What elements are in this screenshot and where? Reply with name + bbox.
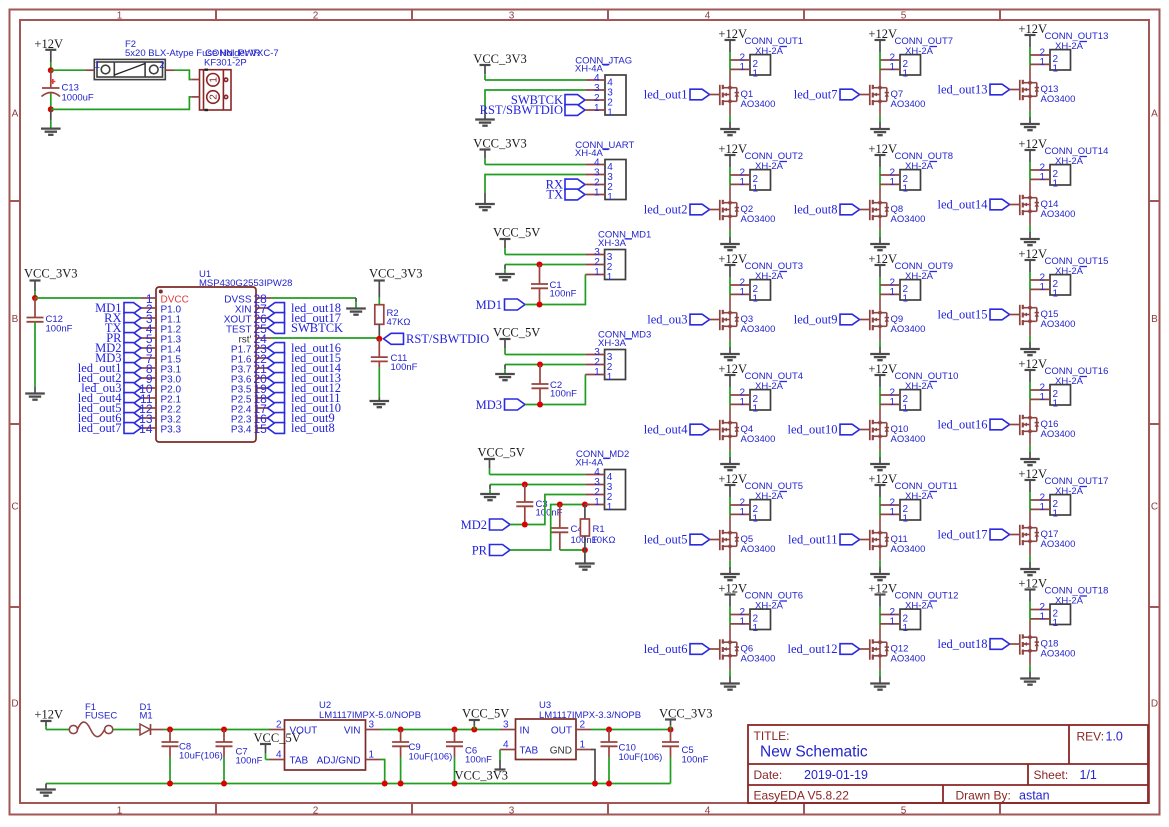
junction — [471, 727, 477, 733]
wire — [35, 297, 141, 299]
ground — [729, 347, 731, 354]
wire — [729, 615, 731, 627]
wire — [1029, 226, 1031, 232]
svg-text:47KΩ: 47KΩ — [387, 317, 411, 328]
svg-text:1/1: 1/1 — [1080, 768, 1097, 782]
net flag led_out18 — [990, 639, 1010, 650]
wire — [879, 60, 881, 72]
net flag led_out11 — [840, 534, 860, 545]
capacitor C6 100nF — [454, 730, 456, 743]
transistor Q5 AO3400 — [720, 517, 739, 561]
capacitor C2 100nF — [539, 365, 541, 385]
wire — [505, 254, 585, 256]
wire — [1029, 500, 1031, 512]
svg-text:3: 3 — [503, 720, 509, 731]
resistor R1 10K — [584, 505, 586, 520]
wire — [729, 341, 731, 347]
junction — [522, 522, 528, 528]
svg-text:D: D — [11, 699, 18, 710]
wire — [51, 97, 191, 110]
svg-text:100nF: 100nF — [550, 288, 577, 299]
U1 pin 11 P2.1 — [141, 397, 156, 399]
svg-text:1: 1 — [1053, 508, 1059, 519]
transistor Q14 AO3400 — [1020, 182, 1039, 226]
svg-text:1: 1 — [889, 62, 895, 73]
svg-text:100nF: 100nF — [236, 756, 263, 767]
svg-text:+12V: +12V — [1018, 137, 1047, 151]
ground — [504, 365, 506, 370]
svg-text:+12V: +12V — [718, 362, 747, 376]
svg-text:MD2: MD2 — [461, 518, 487, 532]
svg-text:1: 1 — [753, 623, 759, 634]
svg-text:MD3: MD3 — [476, 398, 502, 412]
net flag led_out2 — [690, 204, 710, 215]
net flag led_out14 — [268, 363, 285, 374]
svg-text:3: 3 — [509, 10, 515, 21]
svg-text:+12V: +12V — [1018, 467, 1047, 481]
svg-text:15: 15 — [254, 422, 268, 436]
wire — [505, 354, 585, 356]
ground — [729, 567, 731, 574]
wire — [271, 337, 379, 339]
wire — [510, 505, 590, 551]
svg-text:astan: astan — [1019, 789, 1050, 803]
net flag led_out2 — [124, 373, 141, 384]
svg-text:1: 1 — [889, 397, 895, 408]
svg-text:+12V: +12V — [1018, 576, 1047, 590]
wire — [525, 275, 585, 305]
ground — [1029, 672, 1031, 679]
wire — [46, 783, 671, 785]
svg-text:1: 1 — [1053, 178, 1059, 189]
U1 pin 14 P3.3 — [141, 427, 156, 429]
svg-text:1: 1 — [903, 513, 909, 524]
svg-text:MD1: MD1 — [476, 298, 502, 312]
svg-text:1: 1 — [607, 108, 613, 119]
wire — [485, 175, 585, 194]
svg-text:R1: R1 — [593, 524, 605, 535]
svg-text:AO3400: AO3400 — [891, 544, 926, 555]
transistor Q12 AO3400 — [870, 626, 889, 670]
svg-text:1: 1 — [117, 10, 123, 21]
net flag TX — [124, 323, 141, 334]
wire — [729, 505, 731, 517]
svg-text:led_out17: led_out17 — [938, 528, 988, 542]
svg-text:D: D — [1151, 699, 1158, 710]
svg-text:1: 1 — [594, 497, 600, 508]
svg-text:GND: GND — [550, 746, 572, 757]
net flag MD1 — [124, 303, 141, 314]
svg-text:14: 14 — [139, 422, 153, 436]
svg-text:4: 4 — [276, 750, 282, 761]
ground — [879, 347, 881, 354]
wire — [1029, 446, 1031, 452]
junction — [537, 402, 543, 408]
transistor Q10 AO3400 — [870, 407, 889, 451]
capacitor C7 100nF — [223, 730, 225, 743]
svg-text:AO3400: AO3400 — [741, 654, 776, 665]
svg-text:2: 2 — [313, 10, 319, 21]
U2 pin 4 TAB — [270, 759, 285, 761]
U3 pin 3 IN — [500, 729, 516, 731]
junction — [32, 295, 38, 301]
wire — [879, 561, 881, 567]
svg-text:1: 1 — [1039, 611, 1045, 622]
net flag led_out4 — [690, 424, 710, 435]
net flag SWBTCK — [268, 323, 285, 334]
wire — [879, 505, 881, 517]
junction — [537, 362, 543, 368]
svg-text:AO3400: AO3400 — [891, 654, 926, 665]
net flag MD1 — [505, 299, 526, 310]
svg-text:1: 1 — [889, 177, 895, 188]
svg-text:1: 1 — [903, 183, 909, 194]
junction — [582, 547, 588, 553]
svg-text:A: A — [12, 109, 19, 120]
svg-text:1: 1 — [1039, 172, 1045, 183]
wire — [266, 759, 270, 761]
svg-text:led_out14: led_out14 — [938, 198, 989, 212]
svg-text:led_out16: led_out16 — [938, 418, 988, 432]
wire — [1029, 610, 1031, 622]
svg-text:VCC_3V3: VCC_3V3 — [455, 769, 508, 783]
svg-text:AO3400: AO3400 — [741, 434, 776, 445]
svg-text:1: 1 — [1039, 57, 1045, 68]
svg-text:AO3400: AO3400 — [891, 324, 926, 335]
svg-text:1: 1 — [753, 293, 759, 304]
net flag PR — [490, 545, 511, 556]
svg-text:VCC_3V3: VCC_3V3 — [24, 267, 77, 281]
wire — [729, 561, 731, 567]
wire — [163, 729, 270, 731]
svg-text:100nF: 100nF — [550, 388, 577, 399]
U1 pin 13 P3.2 — [141, 417, 156, 419]
junction — [167, 727, 173, 733]
svg-text:VCC_5V: VCC_5V — [493, 326, 540, 340]
U3 pin 4 TAB — [500, 749, 516, 751]
ground — [879, 457, 881, 464]
svg-text:1: 1 — [889, 616, 895, 627]
svg-text:led_out10: led_out10 — [788, 423, 838, 437]
net flag led_ou3 — [690, 314, 710, 325]
junction — [582, 502, 588, 508]
wire — [879, 615, 881, 627]
junction — [537, 302, 543, 308]
svg-text:M1: M1 — [140, 711, 153, 722]
U3 pin 2 OUT — [576, 729, 591, 731]
transistor Q15 AO3400 — [1020, 292, 1039, 336]
wire — [1029, 336, 1031, 342]
svg-text:AO3400: AO3400 — [1041, 94, 1076, 105]
svg-text:1: 1 — [889, 507, 895, 518]
svg-text:1: 1 — [594, 267, 600, 278]
svg-text:2: 2 — [209, 94, 220, 100]
net flag MD3 — [124, 353, 141, 364]
U1 pin 18 P2.5 — [256, 397, 271, 399]
capacitor C12 100nF — [34, 298, 36, 318]
ground — [729, 237, 731, 244]
svg-text:2: 2 — [313, 805, 319, 816]
svg-text:+12V: +12V — [718, 472, 747, 486]
svg-text:RST/SBWTDIO: RST/SBWTDIO — [406, 332, 489, 346]
svg-text:1: 1 — [607, 372, 613, 383]
svg-text:AO3400: AO3400 — [891, 99, 926, 110]
svg-text:10uF(106): 10uF(106) — [409, 752, 453, 763]
ground — [484, 109, 486, 120]
U1 pin 16 P2.3 — [256, 417, 271, 419]
wire — [879, 670, 881, 676]
wire — [271, 297, 356, 299]
wire — [1029, 665, 1031, 671]
net flag led_out8 — [268, 423, 285, 434]
wire — [505, 364, 585, 366]
svg-text:1: 1 — [209, 77, 220, 83]
net flag led_out13 — [268, 373, 285, 384]
ground — [1029, 342, 1031, 349]
svg-text:led_out18: led_out18 — [938, 637, 988, 651]
svg-text:10uF(106): 10uF(106) — [619, 752, 663, 763]
wire — [729, 116, 731, 122]
svg-text:FUSEC: FUSEC — [85, 711, 117, 722]
net flag RST/SBWTDIO — [384, 333, 404, 344]
U2 pin 3 VIN — [366, 729, 381, 731]
U2 pin 1 ADJ/GND — [366, 759, 381, 761]
svg-text:led_out6: led_out6 — [644, 642, 688, 656]
svg-text:1: 1 — [1053, 618, 1059, 629]
wire — [381, 729, 501, 731]
svg-text:1: 1 — [1053, 398, 1059, 409]
junction — [48, 106, 54, 112]
ground — [879, 237, 881, 244]
svg-text:AO3400: AO3400 — [891, 434, 926, 445]
svg-text:AO3400: AO3400 — [741, 544, 776, 555]
net flag led_out5 — [690, 534, 710, 545]
U1 pin 26 XOUT — [256, 317, 271, 319]
net flag led_out6 — [124, 413, 141, 424]
svg-text:+12V: +12V — [718, 27, 747, 41]
svg-text:AO3400: AO3400 — [741, 324, 776, 335]
svg-text:VCC_5V: VCC_5V — [478, 446, 525, 460]
svg-text:led_out15: led_out15 — [938, 308, 988, 322]
wire — [174, 70, 191, 79]
svg-text:1.0: 1.0 — [1106, 730, 1123, 744]
svg-text:led_out4: led_out4 — [644, 423, 688, 437]
svg-text:TX: TX — [546, 188, 563, 202]
svg-text:led_out11: led_out11 — [788, 533, 838, 547]
net flag led_out9 — [840, 314, 860, 325]
net flag MD2 — [490, 519, 511, 530]
svg-text:P3.3: P3.3 — [161, 425, 182, 436]
svg-text:1: 1 — [903, 403, 909, 414]
ground — [879, 567, 881, 574]
svg-text:+12V: +12V — [1018, 22, 1047, 36]
net flag led_out17 — [990, 529, 1010, 540]
net flag led_out15 — [990, 309, 1010, 320]
svg-text:AO3400: AO3400 — [891, 214, 926, 225]
svg-text:VCC_5V: VCC_5V — [493, 226, 540, 240]
svg-text:Sheet:: Sheet: — [1034, 768, 1069, 782]
junction — [522, 482, 528, 488]
svg-text:TAB: TAB — [520, 746, 539, 757]
net flag PR — [124, 333, 141, 344]
transistor Q3 AO3400 — [720, 297, 739, 341]
ground — [378, 398, 380, 402]
U1 pin 15 P3.4 — [256, 427, 271, 429]
svg-text:AO3400: AO3400 — [1041, 539, 1076, 550]
junction — [221, 727, 227, 733]
ground — [729, 677, 731, 684]
svg-text:KF301-2P: KF301-2P — [204, 58, 247, 69]
wire — [729, 231, 731, 237]
svg-text:AO3400: AO3400 — [741, 99, 776, 110]
junction — [668, 727, 674, 733]
junction — [606, 781, 612, 787]
wire — [879, 175, 881, 187]
net flag RX — [565, 179, 585, 190]
U1 pin 19 P3.5 — [256, 387, 271, 389]
fuse F2 5x20 BLX-Atype Fuse Holder — [94, 59, 165, 79]
wire — [729, 670, 731, 676]
U3 pin 1 GND — [576, 749, 591, 751]
svg-text:4: 4 — [705, 805, 711, 816]
net flag SWBTCK — [565, 95, 585, 106]
net flag led_out16 — [268, 343, 285, 354]
transistor Q7 AO3400 — [870, 72, 889, 116]
svg-text:C: C — [11, 502, 18, 513]
junction — [592, 781, 598, 787]
wire — [729, 175, 731, 187]
svg-text:AO3400: AO3400 — [1041, 649, 1076, 660]
junction — [452, 781, 458, 787]
U1 pin 27 XIN — [256, 307, 271, 309]
svg-text:4: 4 — [705, 10, 711, 21]
U1 pin 5 P1.3 — [141, 337, 156, 339]
svg-text:10KΩ: 10KΩ — [592, 535, 616, 546]
wire — [485, 164, 585, 166]
svg-text:1000uF: 1000uF — [62, 93, 94, 104]
net flag led_out15 — [268, 353, 285, 364]
svg-text:1: 1 — [594, 188, 600, 199]
svg-text:A: A — [1151, 109, 1158, 120]
fuse F1 FUSEC — [69, 722, 112, 737]
ground — [45, 784, 47, 790]
wire — [1029, 55, 1031, 67]
svg-text:led_out13: led_out13 — [938, 83, 988, 97]
svg-text:1: 1 — [580, 740, 586, 751]
ground — [879, 122, 881, 129]
net flag led_out13 — [990, 84, 1010, 95]
U1 pin 3 P1.1 — [141, 317, 156, 319]
svg-text:1: 1 — [607, 272, 613, 283]
net flag led_out12 — [268, 383, 285, 394]
ground — [504, 265, 506, 270]
svg-text:ADJ/GND: ADJ/GND — [317, 756, 361, 767]
transistor Q2 AO3400 — [720, 187, 739, 231]
svg-text:C: C — [1151, 502, 1158, 513]
junction — [398, 781, 404, 787]
svg-text:1: 1 — [753, 183, 759, 194]
svg-text:1: 1 — [753, 513, 759, 524]
capacitor C3 100nF — [524, 485, 526, 503]
svg-text:Drawn By:: Drawn By: — [956, 789, 1011, 803]
ground — [484, 193, 486, 204]
net flag MD2 — [124, 343, 141, 354]
svg-text:1: 1 — [739, 177, 745, 188]
U1 pin 6 P1.4 — [141, 347, 156, 349]
svg-text:+12V: +12V — [868, 472, 897, 486]
svg-text:5: 5 — [901, 805, 907, 816]
U1 pin 4 P1.2 — [141, 327, 156, 329]
svg-text:1: 1 — [607, 192, 613, 203]
wire — [879, 231, 881, 237]
U1 pin 1 DVCC — [141, 297, 156, 299]
net flag led_out1 — [124, 363, 141, 374]
transistor Q16 AO3400 — [1020, 402, 1039, 446]
svg-text:1: 1 — [1039, 392, 1045, 403]
svg-text:1: 1 — [1039, 502, 1045, 513]
junction — [452, 727, 458, 733]
U1 pin 20 P3.6 — [256, 377, 271, 379]
U1 pin 9 P3.0 — [141, 377, 156, 379]
junction — [167, 781, 173, 787]
svg-text:RST/SBWTDIO: RST/SBWTDIO — [480, 103, 563, 117]
wire — [490, 474, 586, 476]
svg-text:100nF: 100nF — [391, 362, 418, 373]
svg-text:IN: IN — [520, 726, 530, 737]
net flag led_out9 — [268, 413, 285, 424]
transistor Q11 AO3400 — [870, 517, 889, 561]
svg-text:5: 5 — [901, 10, 907, 21]
net flag TX — [565, 189, 585, 200]
capacitor C1 100nF — [539, 265, 541, 285]
wire — [729, 451, 731, 457]
svg-text:led_ou3: led_ou3 — [647, 313, 687, 327]
wire — [510, 495, 585, 525]
net flag led_out4 — [124, 393, 141, 404]
net flag led_ou3 — [124, 383, 141, 394]
svg-text:TITLE:: TITLE: — [754, 729, 790, 743]
wire — [381, 760, 385, 784]
net flag led_out6 — [690, 644, 710, 655]
svg-text:1: 1 — [753, 403, 759, 414]
wire — [1029, 280, 1031, 292]
net flag led_out12 — [840, 644, 860, 655]
net flag led_out17 — [268, 313, 285, 324]
transistor Q9 AO3400 — [870, 297, 889, 341]
net flag RST/SBWTDIO — [565, 105, 585, 116]
wire — [485, 90, 585, 109]
net flag led_out11 — [268, 393, 285, 404]
svg-text:led_out7: led_out7 — [78, 421, 122, 435]
svg-text:New Schematic: New Schematic — [760, 744, 868, 761]
wire — [879, 116, 881, 122]
svg-text:3: 3 — [509, 805, 515, 816]
net flag led_out5 — [124, 403, 141, 414]
net flag RX — [124, 313, 141, 324]
transistor Q6 AO3400 — [720, 626, 739, 670]
U1 pin 7 P1.5 — [141, 357, 156, 359]
wire — [50, 94, 52, 110]
svg-text:SWBTCK: SWBTCK — [291, 321, 343, 335]
svg-text:1: 1 — [903, 68, 909, 79]
capacitor C5 100nF — [670, 730, 672, 743]
capacitor C8 10uF(106) — [169, 730, 171, 743]
U1 pin 24 rst' — [256, 337, 271, 339]
svg-text:10uF(106): 10uF(106) — [179, 751, 223, 762]
wire — [729, 60, 731, 72]
svg-text:+12V: +12V — [718, 581, 747, 595]
svg-text:1: 1 — [1053, 63, 1059, 74]
